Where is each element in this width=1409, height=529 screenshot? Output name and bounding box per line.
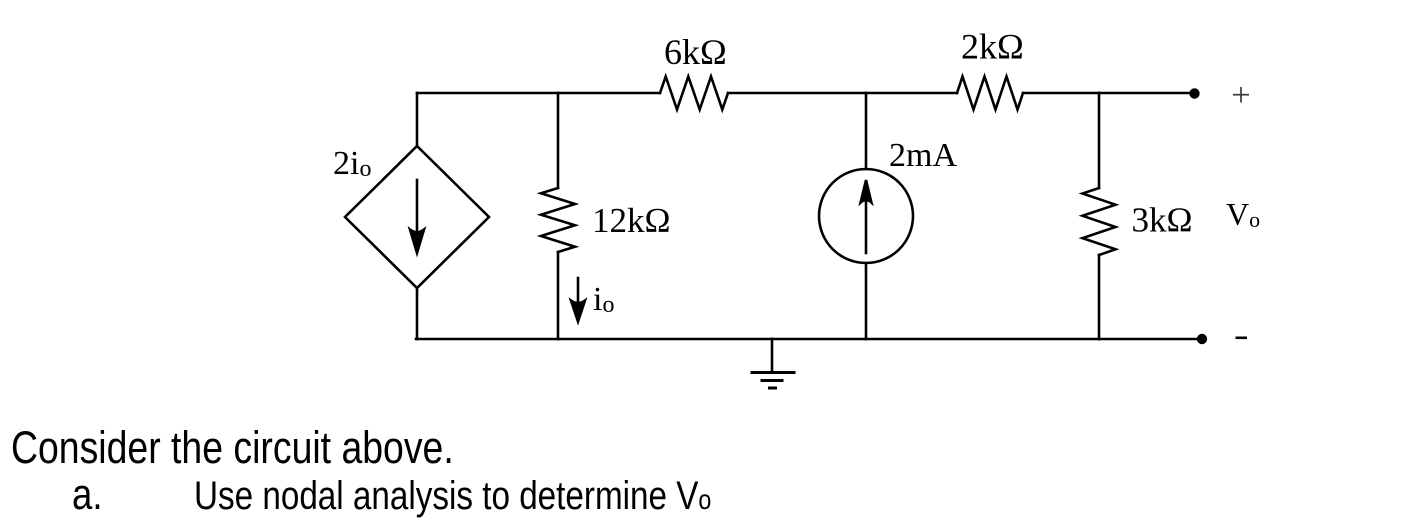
wire 12k branch top: [557, 93, 560, 188]
resistor 3kohm zigzag: [1083, 188, 1116, 255]
resistor 6kohm zigzag: [660, 77, 728, 110]
ground bar 1: [752, 371, 794, 374]
current source 2mA circle: [819, 169, 913, 263]
svg-text:Vo: Vo: [1226, 196, 1260, 232]
caption line 1: [11, 422, 454, 474]
wire 2k to node C: [1023, 92, 1099, 95]
wire top node A right segment: [558, 92, 660, 95]
wire top node A left segment: [417, 92, 558, 95]
svg-text:2kΩ: 2kΩ: [961, 27, 1024, 67]
wire bottom left segment: [416, 338, 558, 341]
caption line 2 item marker: [72, 470, 103, 520]
current source 2mA arrow: [861, 180, 872, 253]
wire 3k branch top: [1098, 93, 1101, 188]
label plus terminal: [1233, 87, 1249, 103]
ground bar 2: [762, 379, 782, 382]
label minus terminal: [1236, 337, 1248, 340]
resistor 2kohm zigzag: [957, 77, 1023, 110]
node dot plus terminal: [1189, 88, 1199, 98]
svg-text:3kΩ: 3kΩ: [1132, 201, 1193, 240]
wire bottom ground to node: [772, 338, 866, 341]
node dot minus terminal: [1197, 334, 1207, 344]
ground bar 3: [770, 387, 776, 390]
wire bottom segment to ground: [558, 338, 772, 341]
svg-text:2mA: 2mA: [889, 137, 957, 174]
wire 2mA branch bottom: [865, 263, 868, 339]
wire bottom segment right: [866, 338, 1099, 341]
wire left branch bottom: [416, 288, 419, 339]
resistor 12kohm zigzag: [541, 188, 575, 252]
dependent source arrow: [410, 180, 424, 253]
wire left branch top: [416, 93, 419, 146]
svg-text:io: io: [593, 281, 614, 318]
current io arrow: [571, 278, 585, 322]
wire 3k branch bottom: [1098, 255, 1101, 339]
svg-text:6kΩ: 6kΩ: [664, 32, 727, 72]
ground stem: [771, 339, 774, 372]
wire bottom to minus terminal: [1099, 338, 1202, 341]
wire node C to plus terminal: [1099, 92, 1194, 95]
wire 12k branch bottom: [557, 252, 560, 339]
wire 2mA branch top: [865, 93, 868, 169]
caption line 2 text: [194, 474, 711, 519]
wire 6k to node B: [728, 92, 866, 95]
wire node B to 2k: [866, 92, 957, 95]
svg-text:2io: 2io: [333, 145, 371, 182]
dependent current source 2io diamond: [345, 146, 489, 288]
svg-text:12kΩ: 12kΩ: [592, 201, 671, 240]
